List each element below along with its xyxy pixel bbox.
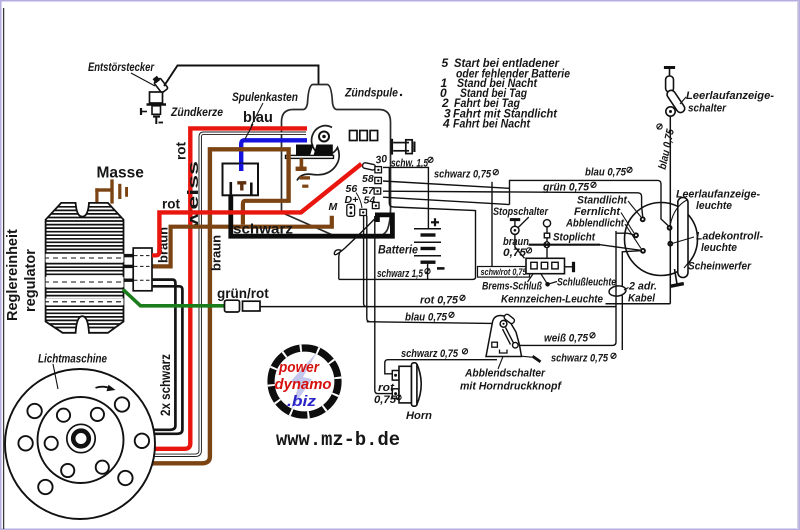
svg-text:M: M (329, 201, 338, 213)
pointer blau (245, 124, 253, 139)
svg-text:schwarz: schwarz (233, 222, 293, 237)
suppressor connector (Entstoerstecker) (154, 77, 169, 93)
coil primary black bars (296, 145, 314, 156)
wire from terminal 54 (to stop light branch) (383, 197, 510, 204)
headlamp circle (Scheinwerfer) (625, 203, 698, 276)
wire schwarz to horn (385, 360, 497, 374)
connector gruen/rot (225, 300, 240, 312)
flywheel outer bolts (18, 397, 149, 494)
pointer Fernlicht (621, 213, 634, 234)
pointer Abblendschalter (498, 357, 503, 370)
wire red stub connector (152, 248, 159, 255)
condenser innards (239, 164, 243, 172)
terminal 58 (375, 177, 382, 183)
svg-text:30: 30 (375, 153, 388, 167)
stop switch (510, 218, 520, 221)
battery plus (431, 218, 439, 226)
svg-text:Stoplicht: Stoplicht (553, 232, 596, 244)
ground symbol Masse (brown) (95, 179, 128, 203)
vertical to weiss wire (517, 231, 617, 345)
coil HT terminal swirl (297, 126, 339, 181)
pointer Abblendlicht (625, 224, 641, 249)
thick black coil wire (schwarz) (231, 195, 393, 236)
svg-text:leuchte: leuchte (701, 242, 737, 254)
svg-text:dynamo: dynamo (275, 376, 332, 393)
battery minus lead (427, 262, 429, 279)
HT ignition wire (164, 66, 322, 133)
tail box terminal bar (565, 266, 573, 268)
tail light box (Brems-Schluss-Kennzeichen) (526, 258, 565, 273)
junction stoplicht (544, 242, 550, 248)
pointer Schlussleuchte (545, 282, 550, 287)
svg-text:schw/rot 0,75: schw/rot 0,75 (481, 267, 527, 277)
dimmer switch (Abblendschalter) (486, 316, 522, 357)
svg-text:regulator: regulator (23, 249, 39, 312)
svg-text:schalter: schalter (688, 103, 727, 115)
svg-text:0,75: 0,75 (503, 247, 527, 259)
wire schwarz 0,75 from terminal 58 (383, 181, 510, 188)
headlamp lens (678, 198, 688, 278)
svg-text:weiß 0,75: weiß 0,75 (544, 333, 589, 345)
wire T2 feed (616, 233, 635, 235)
svg-text:5: 5 (442, 56, 449, 70)
lamp terminal T4 (667, 225, 673, 231)
pointer Leerlaufanzeige-leuchte (670, 200, 688, 226)
pointer Scheinwerfer (684, 262, 689, 268)
wires 2x schwarz (151, 280, 175, 430)
frame line left (3, 8, 5, 529)
tail bulb symbol (543, 220, 550, 227)
wire schw 1,5 from terminal 30 (339, 167, 476, 279)
svg-text:2 adr.: 2 adr. (628, 281, 657, 293)
svg-text:blau 0,75: blau 0,75 (405, 312, 448, 324)
lamp terminal T1 (640, 216, 646, 222)
svg-text:rot: rot (162, 197, 181, 212)
coil ground (brown) (296, 158, 310, 187)
ignition coil body U1 (Zuendspule) (282, 85, 391, 237)
neutral switch (Leerlaufanzeigeschalter) (664, 66, 675, 69)
svg-text:Fernlicht: Fernlicht (574, 206, 621, 218)
flywheel hub (67, 424, 95, 452)
svg-text:schwarz 1,5: schwarz 1,5 (377, 268, 424, 280)
regulator hatching (44, 207, 125, 328)
svg-text:weiss: weiss (186, 161, 202, 231)
2adr cable oval (608, 285, 626, 297)
wire braun from M terminal to regulator connector (152, 216, 332, 267)
pointer Spulenkasten (251, 103, 263, 126)
svg-text:Abblendlicht: Abblendlicht (565, 218, 625, 230)
pointer Standlicht (628, 201, 641, 217)
pointer Entstoerstecker (131, 73, 155, 86)
wire from M terminal (curve) (334, 217, 377, 280)
svg-text:Leerlaufanzeige-: Leerlaufanzeige- (676, 189, 760, 201)
svg-text:58: 58 (362, 173, 374, 185)
svg-text:power: power (278, 359, 320, 376)
svg-text:grün 0,75: grün 0,75 (542, 182, 590, 194)
terminal 54 (372, 202, 379, 208)
svg-text:Standlicht: Standlicht (577, 195, 628, 207)
coil HT terminal (319, 132, 329, 142)
wire blau 0,75 to dimmer (367, 322, 500, 324)
terminal 30 plug (362, 162, 376, 170)
svg-text:4: 4 (442, 117, 450, 131)
verticals tail feed (622, 251, 642, 350)
headlamp mount (675, 269, 678, 284)
wire weiss (white, double line) (151, 133, 306, 455)
svg-text:leuchte: leuchte (696, 200, 732, 212)
svg-text:Abblendschalter: Abblendschalter (464, 368, 546, 380)
logo lightning (290, 352, 317, 410)
spark plug (Zuendkerze) (141, 92, 166, 124)
horn feed wire (375, 216, 393, 394)
svg-text:www.mz-b.de: www.mz-b.de (276, 429, 400, 451)
wire to horn relay (thin, from gruen/rot connector) (260, 306, 616, 308)
branch down to schw/rot (491, 182, 493, 267)
lamp terminal T3 (640, 248, 646, 254)
pointer 56 (356, 193, 362, 209)
wire from neutral switch down (669, 116, 671, 304)
svg-text:blau 0,75: blau 0,75 (585, 167, 627, 179)
svg-text:Horn: Horn (406, 410, 432, 422)
svg-text:rot: rot (378, 382, 395, 394)
wire rot (red) top to coil (151, 128, 307, 448)
svg-text:Schlußleuchte: Schlußleuchte (557, 277, 616, 289)
svg-text:Stopschalter: Stopschalter (493, 206, 549, 218)
svg-text:schwarz 0,75: schwarz 0,75 (434, 169, 492, 181)
condenser box (Spulenkasten) (223, 164, 259, 196)
svg-text:schwarz 0,75: schwarz 0,75 (551, 353, 609, 365)
svg-text:grün/rot: grün/rot (217, 286, 269, 301)
lamp terminal T2 (633, 232, 639, 238)
pointer Ladekontroll (672, 237, 694, 244)
svg-text:Leerlaufanzeige-: Leerlaufanzeige- (686, 90, 774, 102)
svg-text:Fahrt bei Nacht: Fahrt bei Nacht (453, 117, 531, 131)
pointer Lichtmaschine (53, 364, 58, 389)
flywheel inner bolts (45, 408, 109, 477)
svg-text:schw. 1,5: schw. 1,5 (391, 158, 429, 170)
wire Stoplicht (529, 244, 601, 246)
wire braun loop around condenser box (151, 149, 289, 463)
svg-text:schwarz 0,75: schwarz 0,75 (401, 348, 459, 360)
wire gruen/rot (green) (123, 290, 224, 306)
label schwarz 0,75 (right of dimmer) (522, 356, 533, 357)
svg-text:Kabel: Kabel (628, 293, 656, 305)
terminal M block (347, 204, 355, 216)
svg-text:Lichtmaschine: Lichtmaschine (38, 354, 108, 366)
svg-text:Brems-Schluß: Brems-Schluß (482, 281, 542, 293)
svg-text:Ladekontroll-: Ladekontroll- (696, 231, 763, 243)
terminal mid-bottom (360, 209, 367, 215)
rotation arrow (96, 387, 111, 389)
svg-text:0,75: 0,75 (374, 394, 397, 406)
svg-text:Batterie: Batterie (378, 245, 419, 257)
wire blau 0,75 to lamp (510, 180, 669, 225)
horn (392, 363, 421, 406)
svg-text:Masse: Masse (97, 165, 145, 182)
svg-text:mit Horndruckknopf: mit Horndruckknopf (460, 381, 562, 393)
svg-text:Entstörstecker: Entstörstecker (88, 62, 154, 74)
svg-text:54: 54 (364, 195, 376, 207)
coil side bolt (kill switch) (392, 139, 415, 155)
wire gruen 0,75 from terminal 57 to lamp (383, 191, 643, 218)
flywheel Lichtmaschine outer (5, 369, 155, 519)
svg-text:.biz: .biz (287, 393, 317, 410)
wire blau (blue) (241, 140, 307, 171)
schw/rot label box (478, 267, 530, 278)
coil windows (350, 131, 378, 141)
battery minus sign (437, 267, 445, 270)
svg-text:2x schwarz: 2x schwarz (157, 354, 173, 416)
cable bottom wire (606, 303, 671, 305)
battery cells (414, 229, 441, 262)
svg-text:Reglereinheit: Reglereinheit (5, 229, 21, 321)
svg-text:rot 0,75: rot 0,75 (420, 295, 459, 307)
svg-text:Zündspule: Zündspule (344, 88, 398, 100)
coil base plate (286, 155, 334, 158)
svg-text:Zündkerze: Zündkerze (170, 107, 223, 119)
regulator connector block (133, 248, 152, 291)
verticals from terminals down (364, 216, 367, 307)
svg-text:Spulenkasten: Spulenkasten (232, 92, 298, 104)
terminal 57 (374, 188, 381, 194)
connector stubs (124, 256, 134, 281)
svg-text:Kennzeichen-Leuchte: Kennzeichen-Leuchte (501, 294, 603, 306)
wire rot (red) main horizontal to terminal 30 (159, 164, 361, 254)
flywheel inner ring (38, 397, 124, 483)
pointer 2adr (624, 288, 629, 291)
svg-text:rot: rot (174, 142, 189, 161)
pointer schalter (680, 97, 686, 104)
svg-text:braun: braun (209, 235, 224, 271)
terminal 30 square (375, 167, 382, 173)
powerdynamo logo ring (271, 348, 338, 415)
lamp terminal T5 (667, 241, 673, 247)
svg-text:Scheinwerfer: Scheinwerfer (688, 261, 752, 273)
